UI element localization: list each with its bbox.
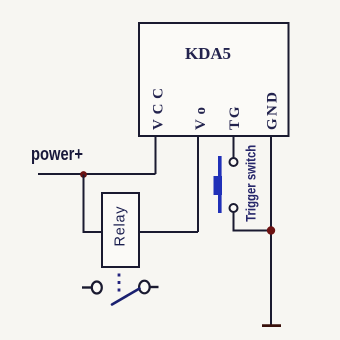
- relay contact blade: [112, 289, 140, 305]
- switch S1 plunger bar: [218, 156, 222, 213]
- svg-text:VCC: VCC: [151, 88, 167, 130]
- ground: [262, 324, 281, 327]
- node power junction: [80, 171, 87, 178]
- wire GND pin vertical: [270, 136, 272, 326]
- relay contact left lead: [82, 286, 92, 288]
- relay actuation dotted link: [118, 274, 121, 292]
- wire relay right to Vo: [139, 231, 198, 233]
- wire Vo pin vertical: [197, 136, 199, 232]
- node ground junction: [267, 226, 275, 234]
- svg-text:KDA5: KDA5: [185, 44, 231, 63]
- wire power+ horizontal to VCC: [38, 173, 156, 175]
- svg-text:GND: GND: [265, 92, 281, 130]
- switch S1 actuator: [214, 176, 223, 195]
- svg-text:power+: power+: [31, 144, 83, 164]
- relay contact left terminal: [92, 282, 102, 294]
- svg-text:Relay: Relay: [113, 206, 129, 247]
- switch S1 bottom terminal: [230, 204, 238, 212]
- wire TG pin vertical: [233, 136, 235, 158]
- relay contact right terminal: [139, 281, 150, 294]
- svg-text:TG: TG: [227, 106, 243, 130]
- wire junction down to relay: [84, 175, 103, 233]
- svg-text:Trigger switch: Trigger switch: [244, 145, 259, 222]
- wire VCC pin vertical: [155, 136, 157, 174]
- wire switch bottom to ground net: [234, 212, 272, 231]
- op-amp U1 KDA5 box: [139, 23, 289, 136]
- relay contact right lead: [150, 286, 159, 288]
- switch S1 top terminal: [230, 158, 238, 166]
- relay K1 box: [102, 193, 139, 267]
